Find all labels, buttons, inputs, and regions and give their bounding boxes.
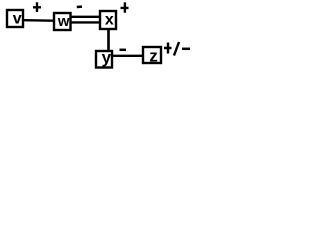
svg-text:y: y bbox=[102, 48, 112, 67]
plus-minus sign node z bbox=[164, 43, 172, 54]
double wire w-x bbox=[72, 17, 100, 23]
plus sign node x bbox=[121, 2, 129, 12]
box z bbox=[143, 47, 161, 63]
minus sign node w-x bbox=[77, 5, 82, 8]
svg-text:v: v bbox=[13, 11, 22, 28]
wire x-y bbox=[107, 29, 110, 50]
box w bbox=[54, 13, 71, 30]
svg-text:z: z bbox=[149, 47, 158, 66]
svg-text:x: x bbox=[105, 12, 114, 29]
minus sign node y bbox=[120, 49, 127, 52]
box x bbox=[100, 11, 116, 29]
wire y-z bbox=[113, 55, 142, 57]
svg-text:w: w bbox=[57, 13, 70, 30]
wire v-w bbox=[24, 19, 53, 22]
box y bbox=[96, 51, 112, 68]
box v bbox=[7, 10, 23, 27]
plus sign node v-w bbox=[33, 2, 41, 12]
